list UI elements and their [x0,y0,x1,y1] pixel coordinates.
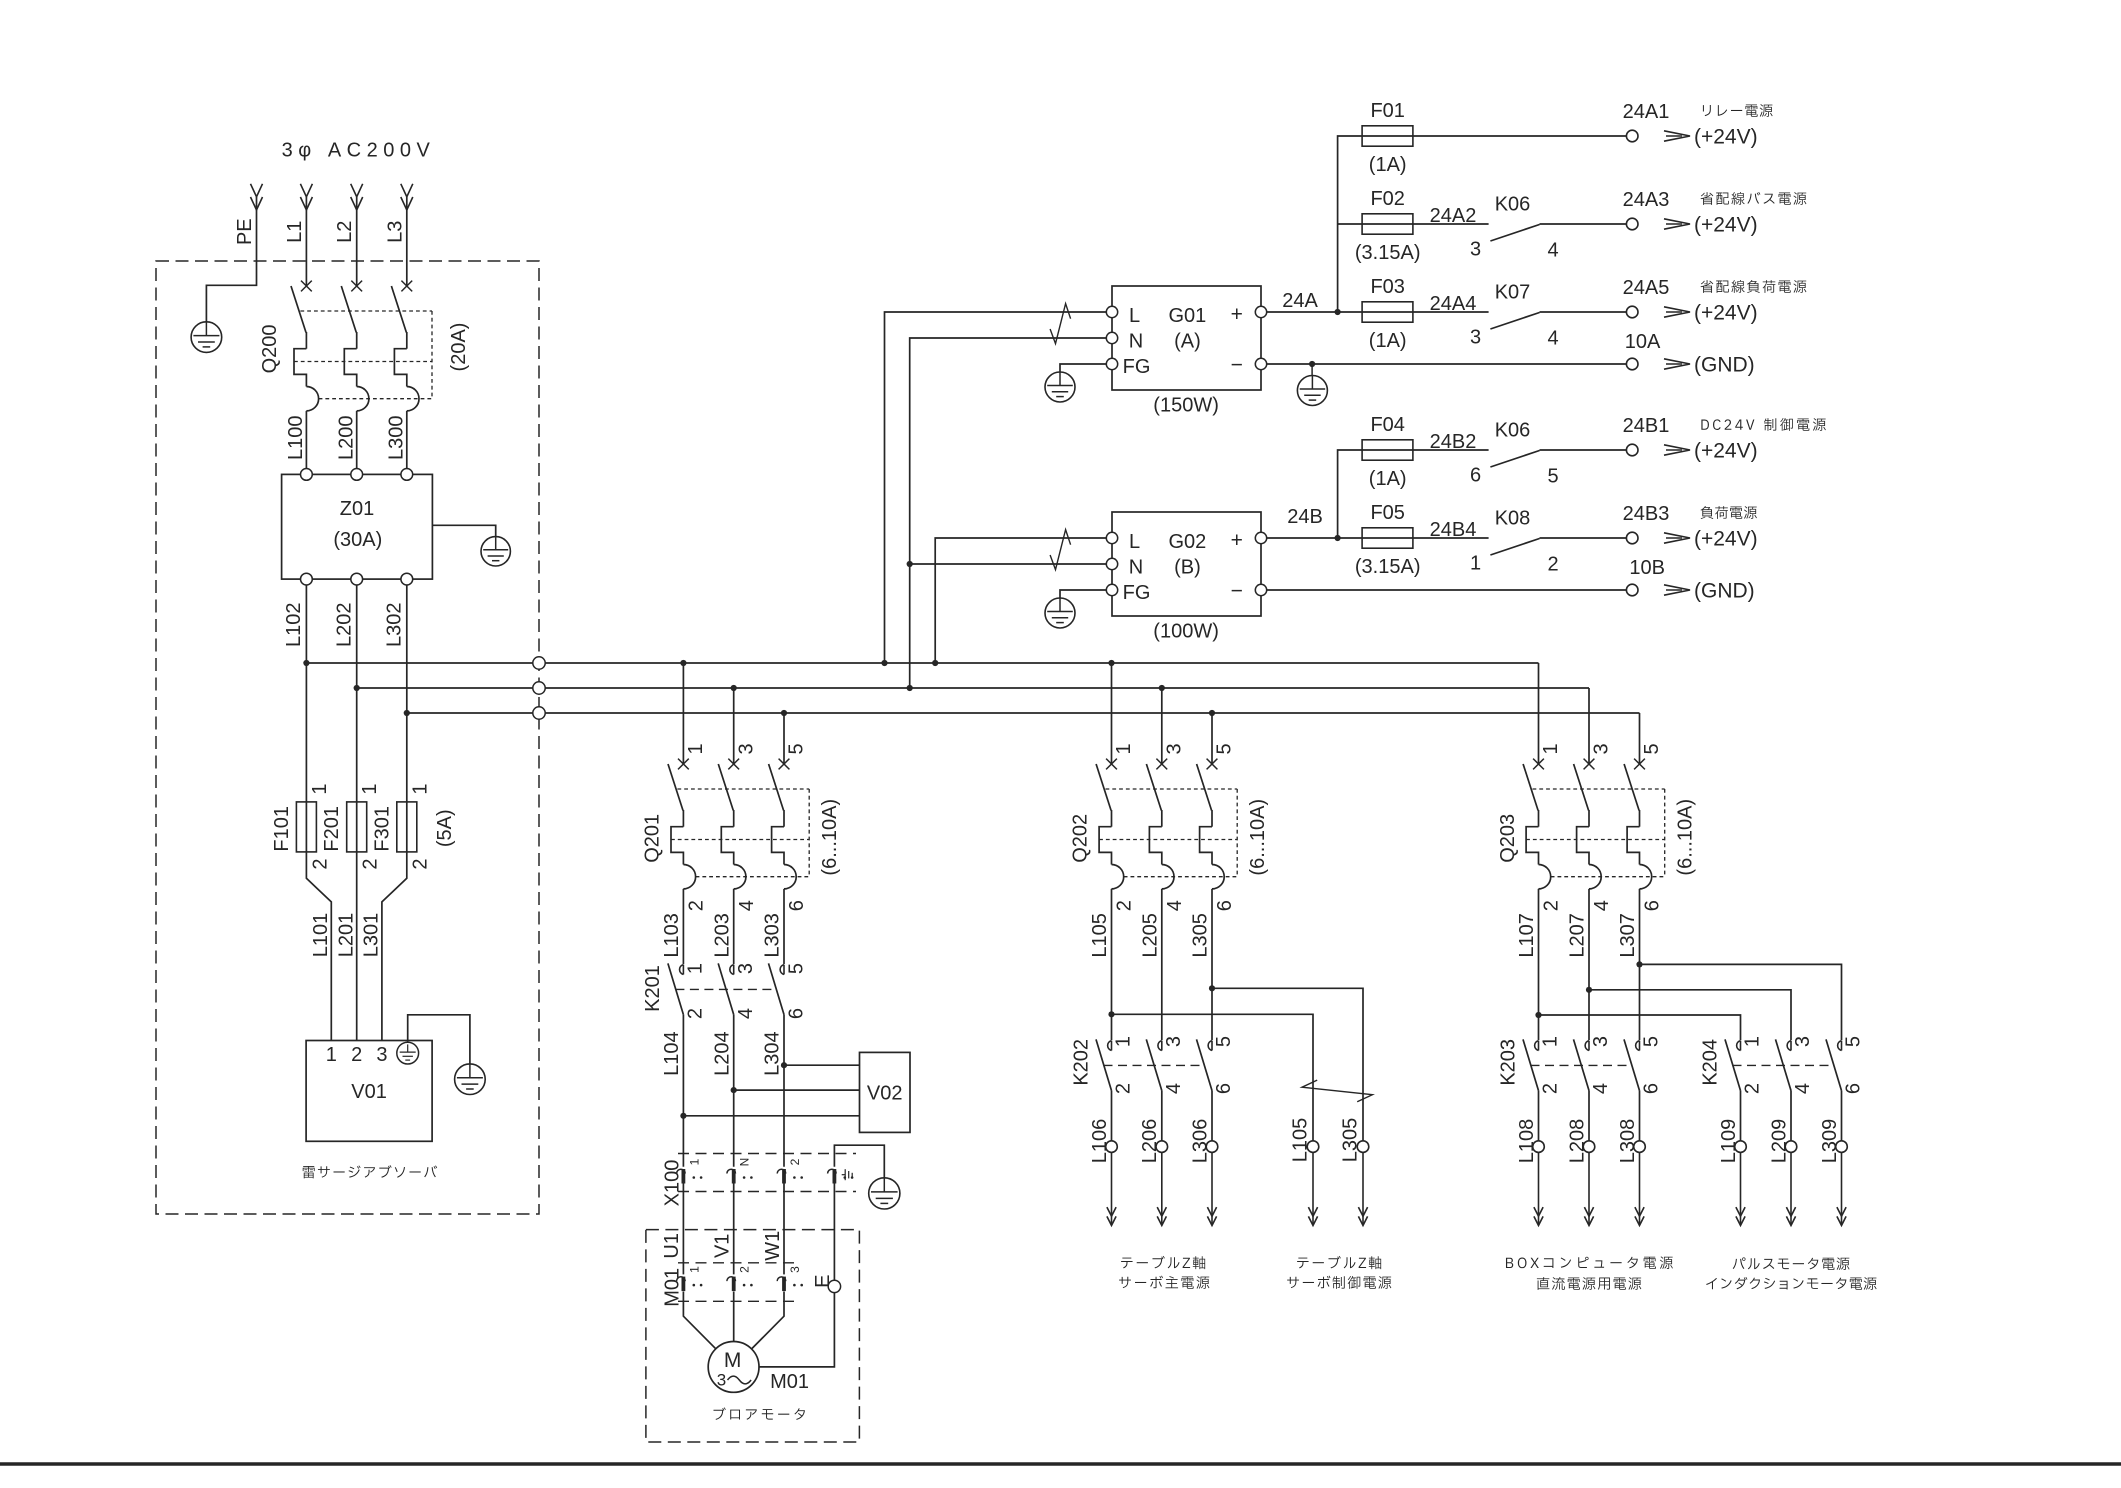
wire bus drop to Q203 pole 1 [1538,663,1540,764]
relay contact K06 [1490,225,1539,242]
wire 24B riser [1338,450,1363,538]
GND-A earth stem [1311,364,1313,376]
node bus3-Q202 [1209,710,1215,716]
svg-text:(150W): (150W) [1153,394,1219,416]
wire servo-control tap L105 [1112,1014,1314,1141]
svg-text:24A3: 24A3 [1623,189,1670,211]
svg-text:1: 1 [687,1158,701,1165]
circuit breaker Q202 pole 1 [1106,759,1117,770]
label table Z-axis servo main 2 [1119,1276,1209,1289]
svg-text:L: L [1129,305,1140,327]
wire L301 [382,852,407,1041]
svg-text:V02: V02 [867,1082,903,1104]
outgoing arrow L105 [1312,1152,1314,1225]
svg-text:U1: U1 [661,1233,683,1259]
ground G01 FG [1045,372,1075,402]
wire L208 [1588,1091,1590,1141]
svg-text:L101: L101 [310,913,332,958]
svg-text:4: 4 [735,1008,757,1019]
surge-absorber enclosure dashed box [156,261,539,1214]
enclosure feed-through terminal bus3 [533,707,545,719]
ground X100 [869,1178,900,1209]
wire L105 [1111,889,1113,1040]
svg-text:F03: F03 [1370,276,1404,298]
contactor K201 pole 1 [680,965,684,975]
blower motor dashed box [646,1230,860,1442]
wire L206 [1161,1091,1163,1141]
output arrow [1664,131,1690,141]
contactor K204 pole 2 [1787,1041,1791,1051]
svg-text:2: 2 [351,1044,362,1066]
node L207-K204 [1586,987,1592,993]
wire bus drop to Q201 pole 5 [783,713,785,764]
svg-text:L309: L309 [1819,1119,1841,1164]
label BOX computer supply 2 [1537,1277,1641,1290]
terminal 24A1 [1626,130,1638,142]
svg-text:(1A): (1A) [1369,154,1407,176]
node L304-V02 [781,1062,787,1068]
wire L303 [783,889,785,964]
svg-text:(+24V): (+24V) [1694,440,1758,463]
line interruption mark on taps [1302,1080,1372,1102]
wire bus drop to Q201 pole 3 [733,688,735,764]
terminal GND-A [1626,358,1638,370]
svg-text:K204: K204 [1699,1039,1721,1086]
node 24B junction [1335,535,1341,541]
fuse F02 [1362,223,1489,225]
contactor K204 pole 1 [1737,1041,1741,1051]
contactor K202 pole 2 [1158,1041,1162,1051]
svg-text:4: 4 [1164,900,1186,911]
circuit breaker Q203 pole 3 [1584,759,1595,770]
wire L201 [356,852,358,1041]
svg-text:FG: FG [1123,582,1151,604]
svg-text:(1A): (1A) [1369,330,1407,352]
contactor K201 pole 3 [780,965,784,975]
contactor K203 pole 1 [1535,1041,1539,1051]
M01 terminal E [828,1280,840,1292]
svg-text:6: 6 [1470,464,1481,486]
wire L302 [406,585,408,852]
svg-text:F101: F101 [271,806,293,852]
terminal L106 [1106,1141,1118,1153]
ground Z01 [481,537,510,566]
svg-text:L104: L104 [661,1031,683,1076]
svg-text:4: 4 [1547,239,1558,261]
V01 earth wire [408,1015,470,1064]
wire bus drop to Q202 pole 1 [1111,663,1113,764]
wire V1 to motor [733,1292,735,1342]
fuse F04 [1362,449,1489,451]
svg-text:L2: L2 [334,221,356,243]
node G02L-bus1 [932,660,938,666]
label 負荷電源 [1701,506,1757,519]
wire L202 [356,585,358,852]
svg-text:6: 6 [786,900,808,911]
Z01 terminal 3 bottom [401,573,413,585]
svg-text:4: 4 [1163,1083,1185,1094]
wire K204 feed from L107 [1539,1015,1741,1040]
terminal L309 [1836,1141,1848,1153]
outgoing arrow L309 [1841,1152,1843,1225]
output arrow [1664,219,1690,229]
svg-text:(+24V): (+24V) [1694,528,1758,551]
wire L103 [682,889,684,964]
wire 24A from G01 + [1267,311,1362,313]
svg-text:FG: FG [1123,356,1151,378]
svg-text:2: 2 [1742,1083,1764,1094]
wire 24A riser [1338,136,1363,312]
Z01 terminal 1 bottom [301,573,313,585]
contactor K202 pole 3 [1208,1041,1212,1051]
svg-text:F02: F02 [1370,188,1404,210]
svg-text:4: 4 [1591,900,1613,911]
wire bus drop to Q201 pole 1 [682,663,684,764]
wire G02 FG to earth [1060,590,1106,598]
svg-text:2: 2 [1541,900,1563,911]
svg-text:2: 2 [1540,1083,1562,1094]
wire L207 [1588,889,1590,1040]
svg-text:L105: L105 [1089,913,1111,958]
svg-text:G01: G01 [1168,305,1206,327]
svg-text:10A: 10A [1625,331,1661,353]
wire X100-2 to M01 [783,1184,785,1275]
fuse F03 [1362,311,1489,313]
wire L200 [356,411,358,469]
wire L3 drop [406,197,408,286]
svg-text:Q200: Q200 [259,324,281,373]
svg-text:Z01: Z01 [340,498,374,520]
fuse F201 [347,802,367,852]
svg-text:L108: L108 [1516,1119,1538,1164]
connector M01 strip dashes [678,1262,798,1264]
wire F02 branch [1338,223,1363,225]
relay contact K06 [1490,451,1539,468]
node L305 tap [1209,985,1215,991]
wire L108 [1538,1091,1540,1141]
svg-text:F01: F01 [1370,100,1404,122]
svg-text:(6...10A): (6...10A) [819,799,841,876]
svg-text:6: 6 [1642,900,1664,911]
svg-text:5: 5 [1843,1036,1865,1047]
svg-text:3: 3 [1470,326,1481,348]
outgoing arrow L305 [1362,1152,1364,1225]
svg-text:N: N [1129,330,1143,352]
svg-text:5: 5 [1214,743,1236,754]
svg-text:5: 5 [1213,1036,1235,1047]
svg-text:6: 6 [1213,1083,1235,1094]
svg-text:6: 6 [785,1008,807,1019]
node bus2-Q202 [1159,685,1165,691]
svg-text:L302: L302 [384,602,406,647]
motor M01 [708,1342,759,1393]
outgoing arrow L308 [1639,1152,1641,1225]
wire K204 feed from L207 [1589,990,1791,1040]
svg-text:K08: K08 [1495,508,1531,530]
svg-text:L307: L307 [1617,913,1639,958]
svg-text:5: 5 [785,963,807,974]
svg-text:X100: X100 [661,1160,683,1207]
svg-text:24B3: 24B3 [1623,503,1670,525]
incoming line arrow L2 [351,184,363,197]
contactor K201 pole 2 [730,965,734,975]
power supply G01 box [1112,286,1261,390]
svg-text:L300: L300 [386,415,408,460]
svg-text:(1A): (1A) [1369,468,1407,490]
contactor K203 pole 2 [1585,1041,1589,1051]
svg-text:2: 2 [360,858,382,869]
svg-text:1: 1 [359,783,381,794]
circuit breaker Q200 pole 3 [401,281,412,292]
svg-text:(GND): (GND) [1694,580,1755,603]
Z01 terminal 2 bottom [351,573,363,585]
svg-text:24B4: 24B4 [1430,519,1477,541]
svg-text:M01: M01 [770,1371,809,1393]
svg-text:3φ AC200V: 3φ AC200V [282,139,436,161]
wire V02 tap 3 [784,1064,860,1066]
wire L106 [1111,1091,1113,1141]
svg-text:F201: F201 [321,806,343,852]
svg-text:24A4: 24A4 [1430,293,1477,315]
circuit breaker Q201 pole 5 [779,759,790,770]
wire G01 L feed from bus1 [885,312,1107,663]
svg-text:N: N [1129,556,1143,578]
fuse F05 [1362,537,1489,539]
wire G02 N feed tap [910,563,1107,565]
M01 terminal 1 [677,1277,686,1281]
svg-text:L303: L303 [762,913,784,958]
svg-text:3: 3 [1792,1036,1814,1047]
svg-text:L: L [1129,531,1140,553]
outgoing arrow L106 [1111,1152,1113,1225]
svg-text:F05: F05 [1370,502,1404,524]
output arrow [1664,445,1690,455]
svg-text:1: 1 [685,743,707,754]
wire bus drop to Q203 pole 3 [1588,688,1590,764]
svg-text:M01: M01 [661,1268,683,1307]
terminal L208 [1583,1141,1595,1153]
svg-text:L305: L305 [1340,1118,1362,1163]
svg-text:24A2: 24A2 [1430,205,1477,227]
svg-text:L200: L200 [335,415,357,460]
wire L308 [1639,1091,1641,1141]
circuit breaker Q202 pole 3 [1156,759,1167,770]
svg-text:L202: L202 [333,602,355,647]
svg-text:5: 5 [786,743,808,754]
svg-text:L107: L107 [1516,913,1538,958]
circuit breaker Q200 pole 1 [301,281,312,292]
svg-text:6: 6 [1641,1083,1663,1094]
svg-text:(20A): (20A) [448,323,470,372]
svg-text:3: 3 [1163,1036,1185,1047]
terminal L108 [1533,1141,1545,1153]
label surge absorber (kanji) [303,1165,437,1178]
node G01N-bus2 [907,685,913,691]
ground PE [191,322,222,353]
label table Z-axis servo main 1 [1121,1256,1205,1269]
svg-text:−: − [1231,354,1243,377]
svg-text:L306: L306 [1189,1119,1211,1164]
svg-text:PE: PE [234,218,256,245]
circuit breaker Q203 pole 1 [1533,759,1544,770]
svg-text:3: 3 [1591,743,1613,754]
wire GND-A from G01 - [1267,363,1627,365]
svg-text:(GND): (GND) [1694,354,1755,377]
svg-text:L204: L204 [711,1031,733,1076]
wire U1 to motor [683,1292,715,1349]
output arrow [1664,533,1690,543]
wire L306 [1211,1091,1213,1141]
ground 10A [1297,376,1327,406]
surge absorber Z01 box [282,474,433,579]
G01 terminal FG [1106,358,1117,369]
node bus1-Q202 [1108,660,1114,666]
svg-text:(30A): (30A) [333,529,382,551]
svg-text:3: 3 [1470,238,1481,260]
wire L104 [682,1015,684,1167]
wire X100-1 to M01 [682,1184,684,1275]
svg-text:V1: V1 [711,1234,733,1258]
node L105 tap [1108,1011,1114,1017]
outgoing arrow L206 [1161,1152,1163,1225]
svg-text:(3.15A): (3.15A) [1355,242,1421,264]
wire V02 tap 2 [734,1089,860,1091]
svg-text:K202: K202 [1070,1039,1092,1086]
node bus2-Q201 [731,685,737,691]
outgoing arrow L208 [1588,1152,1590,1225]
svg-text:2: 2 [1114,900,1136,911]
svg-text:3: 3 [735,743,757,754]
svg-text:1: 1 [1742,1036,1764,1047]
Q200 linkage dashes [300,310,432,312]
svg-text:3: 3 [735,963,757,974]
svg-text:Q201: Q201 [642,814,664,863]
node bus2-L202 [354,685,360,691]
wire L204 [733,1015,735,1167]
label 省配線バス電源 [1701,192,1807,205]
wire GND-B from G02 - [1267,589,1627,591]
svg-text:2: 2 [738,1266,752,1273]
K203 linkage dash [1531,1064,1629,1066]
svg-text:24A: 24A [1282,290,1318,312]
svg-text:+: + [1231,303,1243,326]
node G02N tap [907,561,913,567]
svg-text:1: 1 [1540,1036,1562,1047]
G02 terminal - [1255,584,1266,595]
outgoing arrow L209 [1790,1152,1792,1225]
G02 terminal + [1255,532,1266,543]
wire E to motor [759,1293,834,1367]
circuit breaker Q200 pole 2 [351,281,362,292]
terminal GND-B [1626,584,1638,596]
contactor K203 pole 3 [1636,1041,1640,1051]
svg-text:4: 4 [736,900,758,911]
Q202 linkage dashes [1106,788,1238,790]
line interruption mark G02 input [1050,530,1071,570]
svg-text:24B1: 24B1 [1623,415,1670,437]
contactor K202 pole 1 [1108,1041,1112,1051]
node L107-K204 [1535,1012,1541,1018]
svg-text:F04: F04 [1370,414,1404,436]
node G01L-bus1 [881,660,887,666]
bus line 2 (L2 phase) [357,687,1589,689]
svg-text:L109: L109 [1718,1119,1740,1164]
svg-text:L308: L308 [1617,1119,1639,1164]
svg-text:5: 5 [1641,1036,1663,1047]
svg-text:2: 2 [1547,553,1558,575]
label BOX computer supply 1 [1506,1256,1673,1269]
wire servo-control tap L305 [1212,988,1363,1141]
svg-text:24B2: 24B2 [1430,431,1477,453]
svg-text:1: 1 [687,1266,701,1273]
wire L304 [783,1015,785,1167]
svg-text:M: M [724,1349,742,1372]
Q203 linkage dashes [1533,788,1665,790]
wire bus drop to Q202 pole 3 [1161,688,1163,764]
svg-text:L208: L208 [1566,1119,1588,1164]
surge arrester V02 box [860,1052,911,1132]
svg-text:3: 3 [1590,1036,1612,1047]
svg-text:K06: K06 [1495,194,1531,216]
svg-text:4: 4 [1547,327,1558,349]
svg-text:6: 6 [1843,1083,1865,1094]
svg-text:−: − [1231,580,1243,603]
surge arrester V01 box [306,1041,432,1142]
svg-text:L301: L301 [361,913,383,958]
power supply G02 box [1112,512,1261,616]
M01 terminal 2 [727,1277,736,1281]
circuit breaker Q203 pole 5 [1634,759,1645,770]
terminal 24A3 [1626,218,1638,230]
svg-text:1: 1 [685,963,707,974]
fuse F101 [296,802,316,852]
fuse F01 [1362,135,1626,137]
G02 terminal L [1106,532,1117,543]
terminal 24A5 [1626,306,1638,318]
Z01 terminal 2 top [351,469,363,481]
X100 earth pin mark [844,1169,846,1180]
svg-text:5: 5 [1547,465,1558,487]
output arrow [1664,307,1690,317]
bus line 1 (L1 phase) [306,662,1538,664]
svg-text:24A1: 24A1 [1623,101,1670,123]
wire L101 [306,852,331,1041]
output arrow GND-A [1664,359,1690,369]
svg-text:1: 1 [1540,743,1562,754]
ground G02 FG [1045,598,1075,628]
svg-text:L203: L203 [711,913,733,958]
svg-text:10B: 10B [1629,557,1665,579]
svg-text:L201: L201 [336,913,358,958]
svg-text:3: 3 [1163,743,1185,754]
svg-text:1: 1 [326,1044,337,1066]
wire L109 [1740,1091,1742,1141]
wire L205 [1161,889,1163,1040]
outgoing arrow L108 [1538,1152,1540,1225]
terminal L209 [1785,1141,1797,1153]
svg-text:1: 1 [1470,552,1481,574]
svg-text:L3: L3 [384,221,406,243]
terminal L206 [1156,1141,1168,1153]
svg-text:L105: L105 [1290,1118,1312,1163]
G01 terminal - [1255,358,1266,369]
label DC24V 制御電源 [1701,418,1825,431]
label リレー電源 [1703,104,1773,117]
svg-text:4: 4 [1590,1083,1612,1094]
G02 terminal N [1106,558,1117,569]
node bus3-Q201 [781,710,787,716]
G01 terminal + [1255,306,1266,317]
